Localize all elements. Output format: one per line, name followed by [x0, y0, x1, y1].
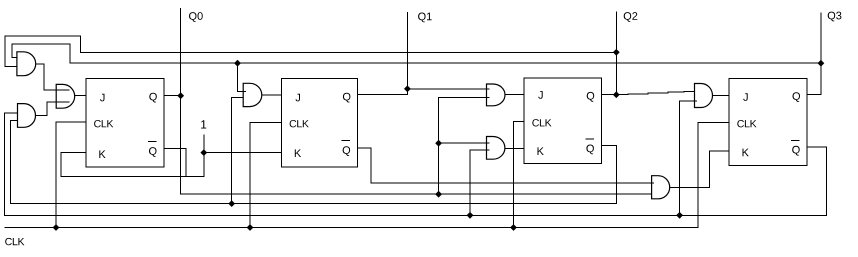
wire Q2 to A7 top input (slanted, stepped) — [616, 91, 694, 94]
wire U3 CLK riser — [514, 121, 525, 227]
wire A1 output to A3 top input — [36, 64, 70, 90]
wire constant-1 stub — [203, 134, 205, 152]
JK flip-flop U2 — [282, 79, 358, 167]
AND gate A2 (lower-left) — [18, 104, 36, 128]
wire A6 output to U3 K — [505, 147, 524, 149]
wire A5 bottom input riser to Q0 — [439, 98, 490, 195]
U2 pin label CLK — [290, 120, 309, 127]
U3 Qbar overbar — [585, 138, 594, 140]
wire U1 CLK riser — [56, 122, 86, 228]
junction Q2 at U3 Q — [613, 91, 620, 98]
wire bus Q3bar net: A2 top input to U4 Qbar — [4, 113, 826, 215]
U3 pin label J — [538, 91, 543, 99]
junction on Q0 at U1 Q — [177, 92, 184, 99]
junction Q1 corner — [404, 85, 411, 92]
U1 pin label CLK — [94, 120, 113, 127]
U4 pin label K — [743, 149, 749, 157]
junction A7 riser on bus — [676, 212, 683, 219]
wire net Q3 feedback to A1 top input — [12, 44, 821, 63]
node label Q2 — [624, 12, 638, 22]
U3 pin label Q — [587, 92, 595, 102]
U2 Qbar overbar — [342, 140, 351, 142]
AND gate A8 (feeds U4 K) — [652, 176, 670, 199]
U2 pin label Q — [343, 93, 351, 103]
junction A4 top input drop — [234, 60, 241, 67]
wire U1 Qbar to K link — [164, 148, 186, 176]
junction A5 riser to A6 branch — [435, 140, 442, 147]
wire node Q1: U2 Q to A5 top input — [358, 89, 490, 95]
U4 Qbar overbar — [791, 139, 800, 141]
junction A4 riser on bus — [228, 200, 235, 207]
U3 pin label Qbar — [586, 145, 594, 155]
wire node Q3 vertical to U4 Q — [807, 13, 821, 95]
U4 pin label CLK — [737, 120, 756, 127]
node label Q0 — [189, 12, 203, 22]
JK flip-flop U1 — [86, 79, 164, 167]
wire node Q0 vertical and run to A8 — [181, 8, 652, 194]
constant 1 on K net — [201, 120, 206, 128]
AND gate A5 (feeds U3 J) — [487, 84, 506, 106]
wire A5 output to U3 J — [505, 94, 524, 96]
JK flip-flop U3 — [524, 78, 601, 163]
U1 pin label Q — [149, 93, 157, 103]
wire A3 output to U1 J — [75, 95, 86, 97]
U4 pin label J — [743, 93, 748, 101]
U1 pin label K — [99, 150, 105, 158]
net label CLK — [5, 238, 24, 245]
U3 pin label CLK — [532, 119, 551, 126]
wire A8 output to U4 K — [670, 151, 730, 187]
U2 pin label J — [296, 94, 301, 102]
AND gate A7 (feeds U4 J) — [695, 84, 713, 108]
wire U1 Q to Q0 — [164, 95, 181, 97]
AND gate A3 (merge, feeds U1 J) — [56, 84, 74, 108]
wire A4 top input from Q3 net — [238, 63, 247, 91]
wire K net: U1 K / U2 K / const 1 / U1 Qbar link — [61, 153, 282, 177]
wire U2 Qbar to A8 top input — [358, 148, 654, 183]
junction Q2 top (A1 feedback) — [613, 49, 620, 56]
wire net Q2 feedback to A1 mid input — [5, 36, 616, 66]
U1 pin label Qbar — [149, 147, 157, 157]
U2 pin label Qbar — [343, 146, 351, 156]
wire A7 output to U4 J — [713, 95, 730, 97]
JK flip-flop U4 — [729, 79, 807, 166]
junction K net const 1 — [200, 149, 207, 156]
wire CLK bus and U4 CLK riser — [5, 122, 730, 227]
U1 Qbar overbar — [148, 141, 157, 143]
junction Q3 (A1 feedback) — [818, 60, 825, 67]
AND gate A1 (top-left) — [17, 52, 36, 76]
AND gate A6 (feeds U3 K) — [487, 137, 505, 160]
wire U3 Q to Q2 — [601, 93, 616, 95]
wire U2 CLK riser — [250, 122, 282, 227]
U1 pin label J — [100, 94, 105, 102]
node label Q1 — [418, 13, 432, 23]
junction A6 riser on bus — [467, 212, 474, 219]
wire bus U3-Qbar net: A2 bottom input to U3 Qbar — [11, 120, 617, 203]
junction U3 CLK riser on CLK bus — [510, 224, 517, 231]
wire A7 bottom input riser to bus — [679, 101, 697, 216]
U2 pin label K — [295, 149, 301, 157]
AND gate A4 (feeds U2 J) — [243, 83, 262, 106]
node label Q3 — [828, 12, 842, 22]
wire A2 output to A3 bottom input — [36, 102, 70, 115]
wire node Q1 vertical — [406, 12, 408, 89]
wire A6 bottom input riser to bus — [470, 150, 490, 215]
wire A4 bottom input riser to bus — [232, 97, 244, 203]
junction U1 CLK riser on CLK bus — [53, 224, 60, 231]
wire A4 output to U2 J — [262, 94, 282, 96]
U4 pin label Q — [793, 92, 801, 102]
wire node Q2 vertical — [615, 11, 617, 94]
junction U2 CLK riser on CLK bus — [247, 224, 254, 231]
U3 pin label K — [538, 147, 544, 155]
junction on Q0 line — [435, 191, 442, 198]
wire branch to A6 top input — [439, 142, 490, 144]
U4 pin label Qbar — [792, 146, 800, 156]
